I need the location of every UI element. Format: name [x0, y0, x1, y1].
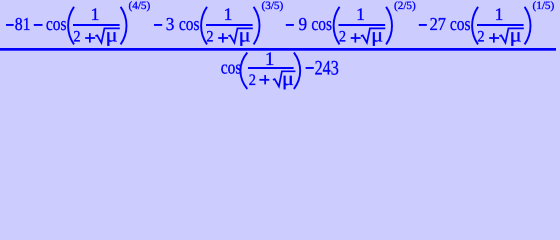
- svg-text:81: 81: [15, 14, 31, 34]
- minus sign 1: [6, 24, 14, 26]
- denominator big right paren: [294, 53, 300, 90]
- svg-text:cos: cos: [221, 58, 242, 79]
- denominator plus vertical: [264, 75, 266, 84]
- denominator plus horizontal: [259, 79, 269, 81]
- denominator big left paren: [240, 53, 247, 90]
- cos group 3: [311, 4, 392, 47]
- svg-text:(4/5): (4/5): [129, 0, 151, 12]
- svg-text:μ: μ: [282, 68, 294, 90]
- svg-text:9: 9: [299, 14, 308, 34]
- cos group 2: [179, 4, 260, 47]
- minus sign 6: [306, 67, 314, 69]
- svg-text:243: 243: [315, 58, 339, 80]
- minus sign 4: [286, 24, 294, 26]
- svg-text:(3/5): (3/5): [262, 0, 284, 12]
- svg-text:1: 1: [265, 49, 275, 70]
- svg-text:3: 3: [166, 14, 175, 34]
- main fraction bar: [0, 48, 556, 51]
- minus sign 2: [34, 24, 43, 26]
- svg-text:(1/5): (1/5): [533, 0, 555, 12]
- svg-text:2: 2: [249, 72, 256, 89]
- cos group 4: [450, 4, 531, 47]
- denominator radical sign: [273, 71, 296, 86]
- minus sign 3: [154, 24, 162, 26]
- denominator fraction bar: [248, 67, 294, 69]
- minus sign 5: [419, 24, 427, 26]
- svg-text:(2/5): (2/5): [394, 0, 416, 12]
- cos group 1: [46, 4, 127, 47]
- svg-text:27: 27: [430, 14, 446, 34]
